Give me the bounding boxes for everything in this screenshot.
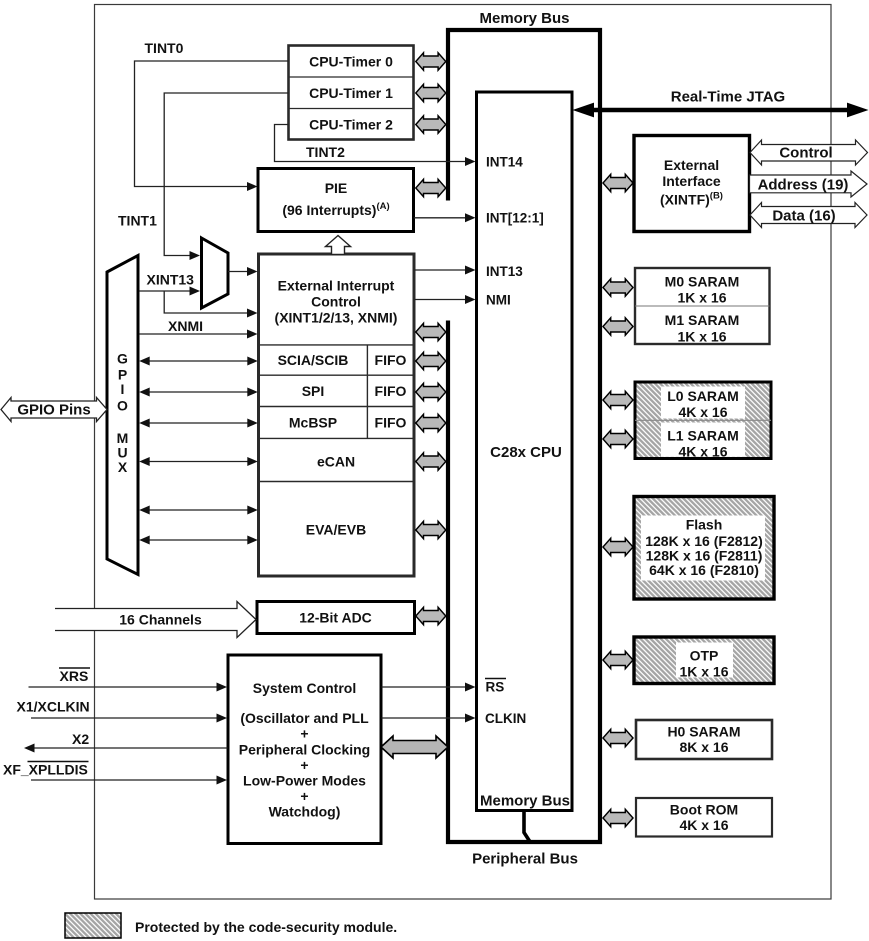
svg-text:Peripheral Bus: Peripheral Bus [472,851,578,868]
PIE up arrow [326,236,351,255]
arrowhead muxout [247,267,258,276]
peripherals box [259,254,415,576]
svg-text:G: G [117,350,128,366]
svg-text:RS: RS [486,680,505,695]
svg-text:XF_XPLLDIS: XF_XPLLDIS [3,762,88,778]
svg-text:XNMI: XNMI [168,318,203,334]
svg-text:CPU-Timer 0: CPU-Timer 0 [309,54,393,70]
arrowhead XNMI [247,330,258,339]
svg-text:NMI: NMI [486,293,511,308]
wire SPI bidir [149,391,248,393]
svg-text:1K x 16: 1K x 16 [679,664,728,680]
svg-text:FIFO: FIFO [375,415,407,431]
wire McBSP bidir [149,422,248,424]
wire X1/XCLKIN [31,717,218,719]
svg-text:INT[12:1]: INT[12:1] [486,211,544,226]
OTP box [634,637,774,684]
wire TINT1 [164,93,288,256]
wire XNMI [139,333,249,335]
svg-text:EVA/EVB: EVA/EVB [306,522,366,538]
arrowhead SCIA R [247,357,258,366]
arrowhead EVA1 L [139,506,150,515]
H0 SARAM box [636,720,772,759]
Address arrow [750,171,868,197]
svg-text:4K x 16: 4K x 16 [678,404,727,420]
gray arrow timer0 [416,53,446,70]
svg-text:(XINT1/2/13, XNMI): (XINT1/2/13, XNMI) [275,310,398,326]
arrowhead X1 [217,714,228,723]
svg-text:(96 Interrupts)(A): (96 Interrupts)(A) [282,201,389,218]
gray arrow eCAN [416,453,446,470]
svg-text:Peripheral Clocking: Peripheral Clocking [239,742,370,758]
arrowhead CLKIN [465,714,476,723]
wire CLKIN to CPU [382,717,467,719]
arrowhead XF [217,776,228,785]
wire RS to CPU [382,686,467,688]
arrowhead eCAN R [247,457,258,466]
svg-text:8K x 16: 8K x 16 [679,739,728,755]
arrowhead INT13 [465,266,476,275]
arrowhead X2 [24,744,35,753]
wire mux output [228,271,249,273]
svg-text:TINT0: TINT0 [145,40,184,56]
Boot ROM box [636,798,772,837]
gray arrow XINTF [603,174,633,191]
svg-text:4K x 16: 4K x 16 [679,817,728,833]
wire NMI [414,299,466,301]
svg-text:M0 SARAM: M0 SARAM [665,274,740,290]
L0/L1 SARAM box [635,382,771,459]
M0/M1 SARAM box [635,268,770,344]
svg-text:H0 SARAM: H0 SARAM [667,724,740,740]
gray arrow McBSP [416,414,446,431]
svg-text:12-Bit ADC: 12-Bit ADC [299,610,372,626]
legend swatch [65,913,121,938]
svg-text:OTP: OTP [690,648,719,664]
arrowhead McBSP L [139,419,150,428]
svg-text:TINT1: TINT1 [118,213,157,229]
svg-text:Real-Time JTAG: Real-Time JTAG [671,89,785,106]
gray arrow OTP [603,651,633,668]
16 Channels arrow [55,602,256,638]
GPIO Pins arrow [1,398,107,422]
arrowhead XINT13-branch [247,309,258,318]
svg-text:Low-Power Modes: Low-Power Modes [243,773,366,789]
gray arrow system control [381,736,448,758]
arrowhead TINT0-PIE [247,182,258,191]
svg-text:64K x 16 (F2810): 64K x 16 (F2810) [649,562,759,578]
svg-text:Boot ROM: Boot ROM [670,802,738,818]
gray arrow extint [416,323,446,340]
svg-text:Data (16): Data (16) [772,208,835,225]
svg-text:XRS: XRS [60,668,89,684]
mux trapezoid [202,238,229,308]
wire EVA bidir 1 [149,509,248,511]
svg-text:O: O [117,397,128,413]
svg-text:X1/XCLKIN: X1/XCLKIN [17,699,90,715]
arrowhead INT12 [465,213,476,222]
svg-text:(Oscillator and PLL: (Oscillator and PLL [240,710,369,726]
arrowhead XRS [217,683,228,692]
arrowhead XINT13-mux [190,287,201,296]
svg-text:4K x 16: 4K x 16 [678,444,727,460]
svg-text:CPU-Timer 2: CPU-Timer 2 [309,117,393,133]
svg-text:Protected by the code-security: Protected by the code-security module. [135,919,397,935]
svg-text:Interface: Interface [662,173,721,189]
wire XF_XPLLDIS [31,779,218,781]
Data arrow [750,203,867,228]
gray arrow PIE [416,179,446,196]
gray arrow M0 [603,279,633,296]
svg-text:FIFO: FIFO [375,352,407,368]
gray arrow H0 [603,729,633,746]
svg-text:XINT13: XINT13 [147,272,195,288]
wire EVA bidir 2 [149,539,248,541]
gray arrow EVA [416,521,446,538]
bus-to-peripheral-bus connector [524,810,530,841]
svg-text:PIE: PIE [325,180,348,196]
gray arrow M1 [603,318,633,335]
memory/peripheral bus outline [448,30,600,842]
svg-text:System Control: System Control [253,680,356,696]
arrowhead INT14 [465,157,476,166]
GPIO MUX polygon [107,256,138,575]
gray arrow SPI [416,383,446,400]
svg-text:Control: Control [779,145,832,162]
svg-text:Memory Bus: Memory Bus [480,793,570,810]
svg-text:1K x 16: 1K x 16 [677,290,726,306]
arrowhead eCAN L [139,457,150,466]
svg-text:SCIA/SCIB: SCIA/SCIB [278,352,349,368]
wire PIE to INT[12:1] [414,217,466,219]
svg-text:Flash: Flash [686,517,723,533]
svg-text:C28x CPU: C28x CPU [490,444,562,461]
gray arrow L1 [603,430,633,447]
gray arrow timer1 [416,84,446,101]
wire SCIA bidir [149,360,248,362]
wire TINT0 [135,61,289,187]
wire INT13 [414,269,466,271]
gray arrow Flash [603,538,633,555]
svg-text:CLKIN: CLKIN [485,711,526,726]
svg-text:Watchdog): Watchdog) [269,804,341,820]
timer dividers [289,76,414,78]
arrowhead SPI L [139,388,150,397]
svg-text:McBSP: McBSP [289,415,337,431]
wire TINT2 to INT14 [275,125,467,162]
svg-text:L0 SARAM: L0 SARAM [667,388,739,404]
gray arrow ADC [416,607,446,624]
system control box [228,655,381,844]
overline RS [485,678,506,680]
gray arrow SCIA [416,352,446,369]
svg-text:CPU-Timer 1: CPU-Timer 1 [309,85,393,101]
svg-text:+: + [300,788,308,804]
wire XINT13 [139,290,191,292]
svg-text:INT13: INT13 [486,264,523,279]
svg-text:Address (19): Address (19) [758,177,849,194]
gray arrow timer2 [416,116,446,133]
wire XRS [29,686,219,688]
Control arrow [750,140,868,165]
overline XRS [59,667,90,669]
svg-text:M1 SARAM: M1 SARAM [665,312,740,328]
svg-text:1K x 16: 1K x 16 [677,329,726,345]
arrowhead EVA1 R [247,506,258,515]
gray arrow BootROM [603,809,633,826]
svg-text:16 Channels: 16 Channels [119,612,202,628]
C28x CPU box [477,92,573,811]
svg-text:External Interrupt: External Interrupt [278,278,395,294]
svg-text:eCAN: eCAN [317,454,355,470]
XINTF box [634,136,750,232]
svg-text:Memory Bus: Memory Bus [479,10,569,27]
ADC box [257,602,415,634]
svg-text:External: External [664,157,719,173]
arrowhead TINT1-mux [190,251,201,260]
arrowhead EVA2 L [139,536,150,545]
overline XPLLDIS [28,761,89,763]
PIE box [258,169,414,232]
wire eCAN bidir [149,461,248,463]
svg-text:SPI: SPI [302,383,325,399]
svg-text:INT14: INT14 [486,155,523,170]
svg-text:X2: X2 [72,731,89,747]
wire XINT13 branch [164,291,249,313]
arrowhead McBSP R [247,419,258,428]
svg-text:+: + [300,726,308,742]
CPU timers box [289,46,414,140]
svg-text:L1 SARAM: L1 SARAM [667,428,739,444]
arrowhead RS [465,683,476,692]
Flash box [634,497,774,600]
svg-text:+: + [300,757,308,773]
arrowhead NMI [465,295,476,304]
JTAG double arrow [573,103,869,118]
svg-text:FIFO: FIFO [375,383,407,399]
svg-text:Control: Control [311,294,361,310]
wire X2 [33,747,228,749]
arrowhead EVA2 R [247,536,258,545]
svg-text:I: I [121,381,125,397]
gray arrow L0 [603,391,633,408]
arrowhead SPI R [247,388,258,397]
svg-text:GPIO Pins: GPIO Pins [17,402,90,419]
svg-text:TINT2: TINT2 [306,144,345,160]
arrowhead SCIA L [139,357,150,366]
svg-text:X: X [118,459,128,475]
